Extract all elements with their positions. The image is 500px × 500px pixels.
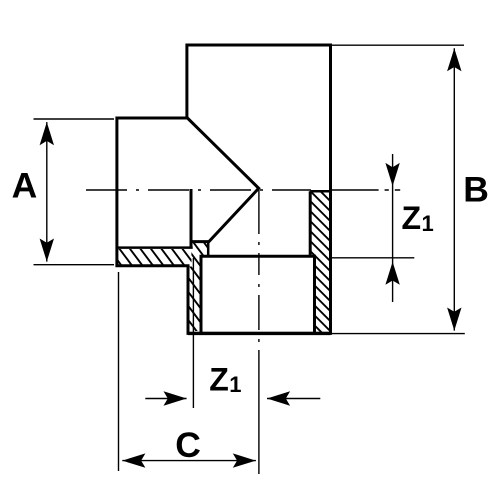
dim C arrow left [122, 453, 145, 467]
inner chamfer diagonals [187, 118, 259, 242]
dim Z1 right line [392, 154, 394, 302]
dim B arrow down [447, 308, 461, 331]
bottom mouth line [188, 332, 331, 335]
vertical center line [258, 188, 260, 474]
small corner square [207, 242, 210, 256]
hatch left strip [85, 245, 208, 269]
left socket wall top line [117, 246, 193, 249]
dim C extension line [118, 272, 120, 471]
tee body outer contour [117, 45, 331, 333]
right wall inner upper edge [309, 191, 312, 255]
svg-text:1: 1 [422, 211, 434, 236]
right wall hatch top edge [310, 190, 330, 193]
dim A line [46, 122, 48, 262]
hatch right wall [158, 189, 476, 337]
svg-text:Z: Z [209, 361, 229, 397]
dim A arrow down [40, 239, 54, 262]
horizontal center line extension right [332, 189, 400, 191]
svg-text:Z: Z [402, 200, 422, 236]
svg-text:C: C [175, 425, 201, 465]
dim Z1 bottom arrow right [164, 391, 187, 405]
dim C line [122, 460, 256, 462]
horizontal center line [86, 189, 311, 191]
dim A arrow up [40, 122, 54, 145]
dim Z1 right arrow up [385, 262, 399, 285]
dim A extension lines [34, 119, 115, 265]
dim Z1 right extension line [332, 257, 415, 259]
svg-text:1: 1 [229, 372, 241, 397]
dim B extension lines [331, 45, 465, 333]
dim C arrow right [233, 453, 256, 467]
dim B line [453, 48, 455, 330]
bottom socket bore [201, 256, 315, 332]
svg-text:B: B [463, 169, 489, 209]
inner vertical edge [190, 189, 193, 248]
dim B arrow up [447, 48, 461, 71]
dim Z1 bottom arrow left [267, 391, 290, 405]
dim Z1 bottom extension line [192, 258, 194, 408]
svg-text:A: A [12, 165, 38, 205]
dim Z1 right arrow down [385, 163, 399, 186]
hatch left column [107, 239, 284, 336]
dim Z1 bottom lines [145, 398, 320, 400]
